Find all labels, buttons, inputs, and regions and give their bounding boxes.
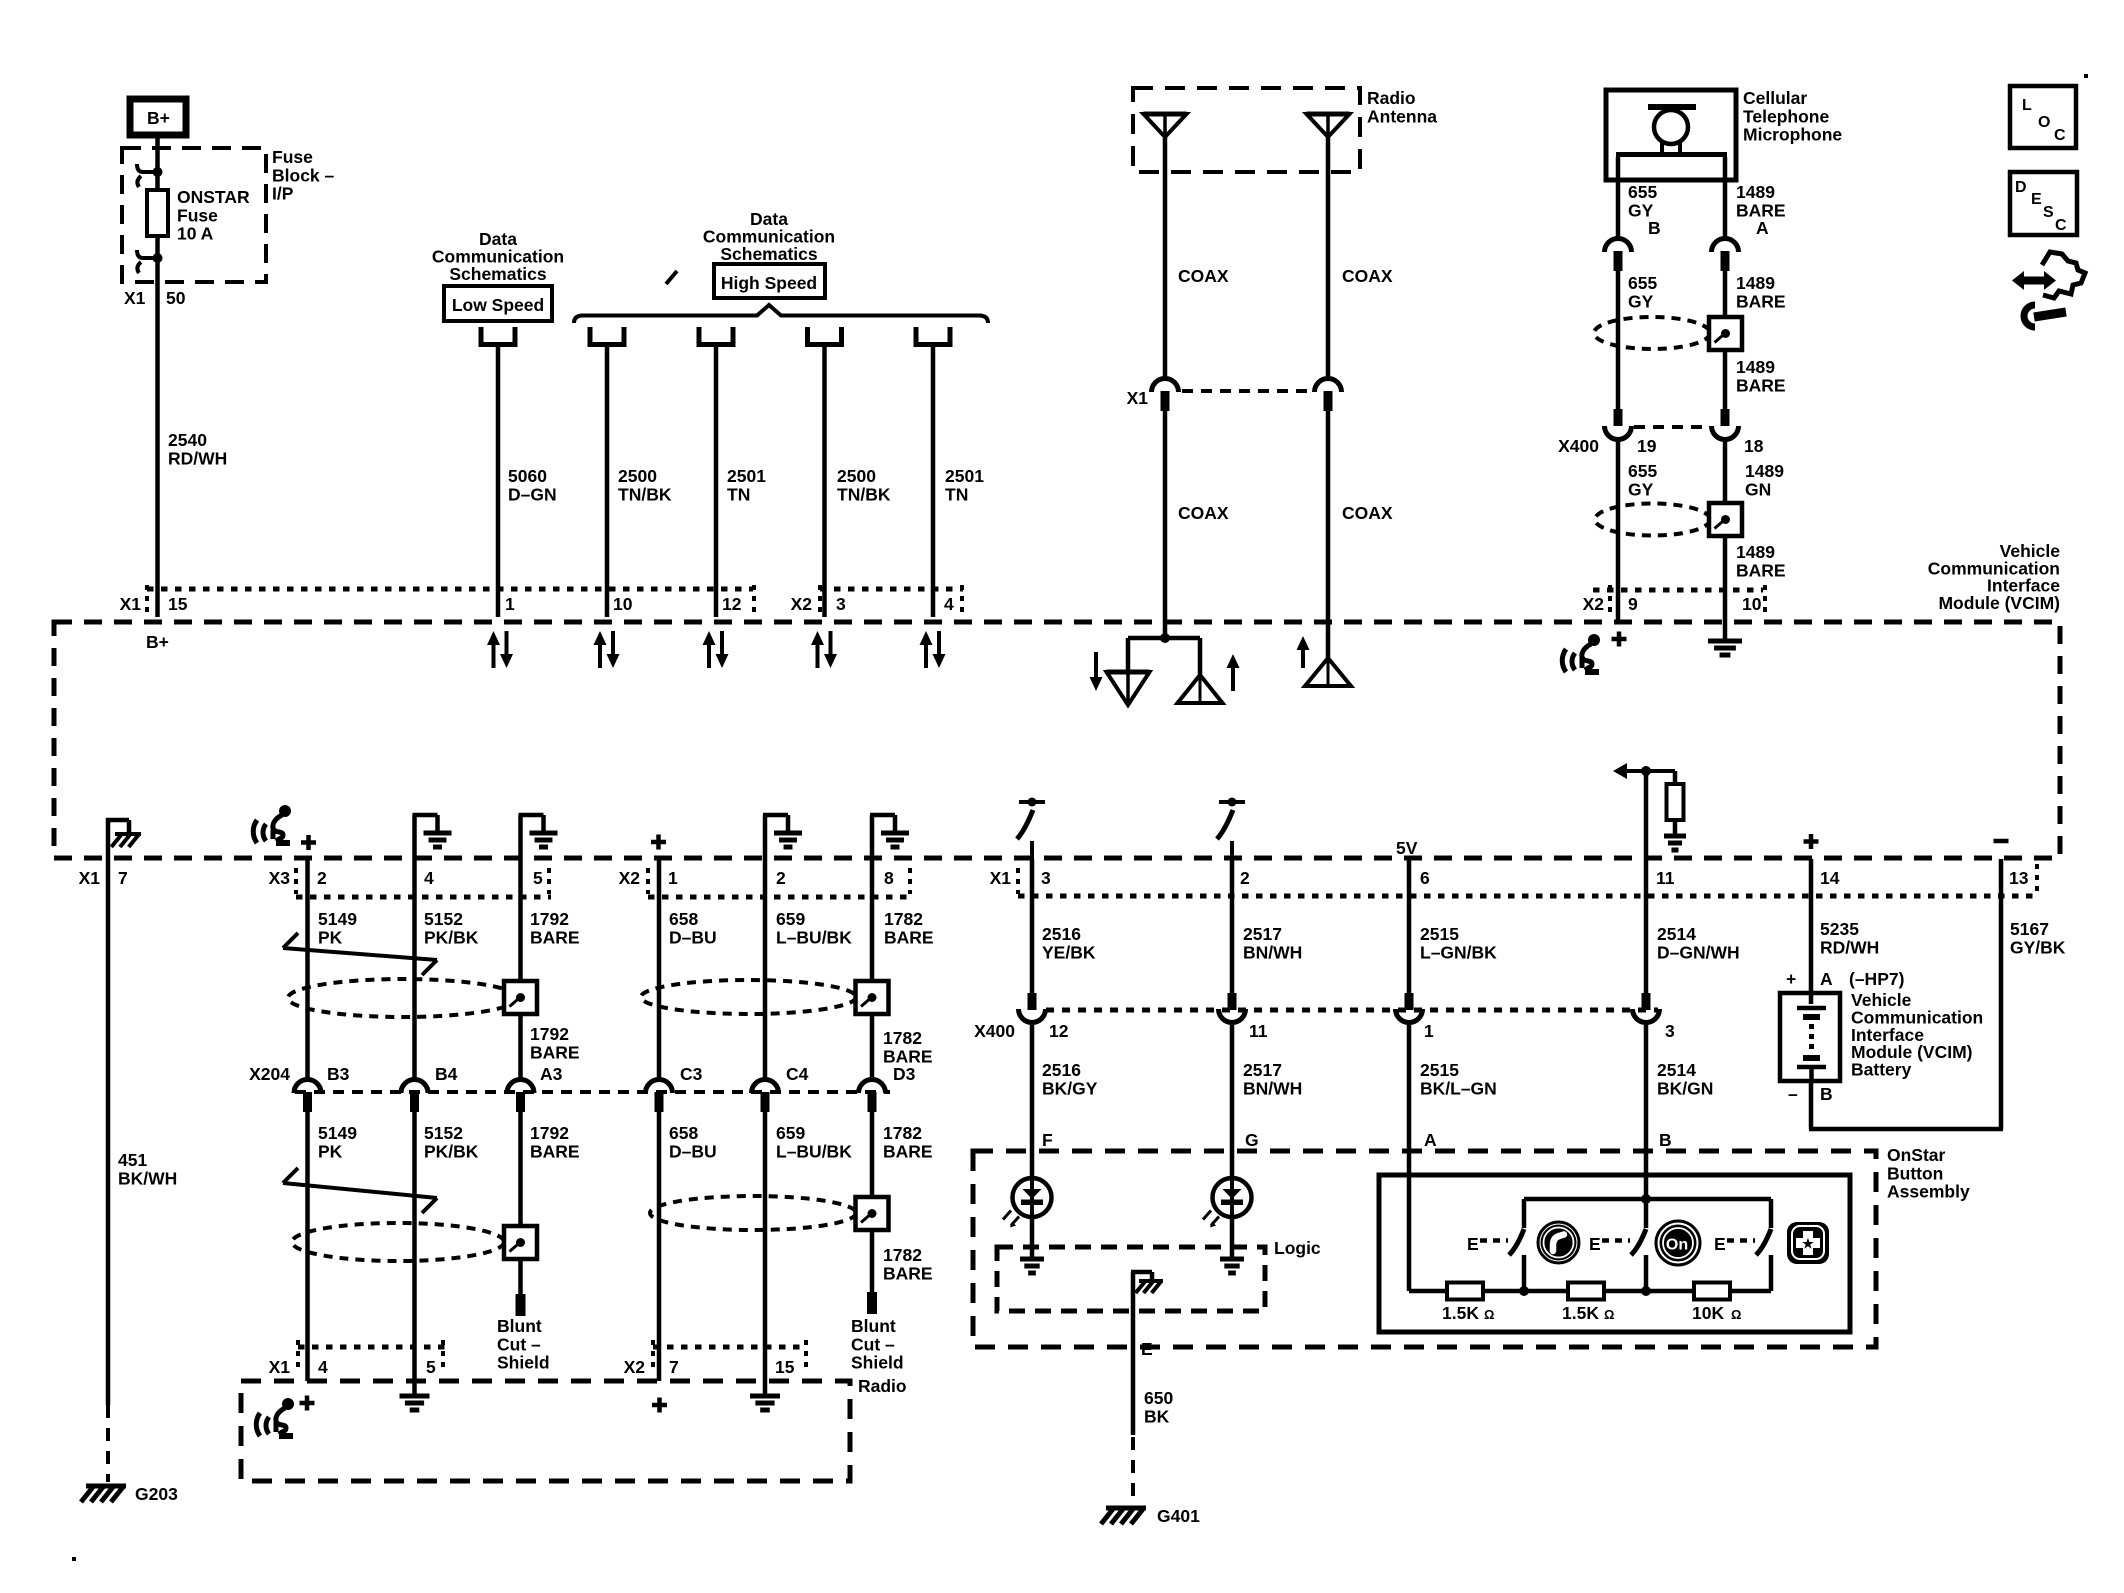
svg-text:L–BU/BK: L–BU/BK — [776, 927, 852, 947]
switch drop 1 upper — [1522, 1199, 1527, 1228]
check mark — [666, 271, 677, 284]
svg-text:1489: 1489 — [1745, 461, 1784, 481]
ground struct X3-4 — [412, 815, 417, 859]
wire B+ to fuse — [155, 137, 160, 190]
svg-text:18: 18 — [1744, 436, 1764, 456]
switch drop 3 upper — [1769, 1199, 1774, 1228]
shield ellipse mid upper — [641, 980, 856, 1014]
radio antenna dashed box — [1133, 88, 1360, 172]
svg-text:PK/BK: PK/BK — [424, 1141, 479, 1161]
pin row X2 dotted — [648, 895, 912, 900]
svg-text:1782: 1782 — [883, 1123, 922, 1143]
wire A upper — [1407, 1022, 1412, 1291]
svg-text:Shield: Shield — [497, 1353, 550, 1373]
svg-text:X3: X3 — [269, 868, 291, 888]
mic wire 655 mid — [1616, 269, 1621, 425]
svg-text:Logic: Logic — [1274, 1238, 1321, 1258]
antenna connector link dashes — [1182, 389, 1312, 393]
wire X2-1 upper — [657, 859, 662, 1079]
svg-text:D: D — [2015, 179, 2027, 196]
svg-text:Shield: Shield — [851, 1353, 904, 1373]
connector X204 B3 — [294, 1080, 321, 1094]
microphone symbol — [1648, 104, 1696, 110]
svg-text:Radio: Radio — [858, 1376, 907, 1396]
bidirectional arrows pin 3 — [707, 643, 711, 668]
wire X3-4 upper — [412, 859, 417, 1079]
pin tick radio X2 — [651, 1340, 655, 1372]
ground struct X3-5 — [518, 815, 523, 859]
connector X400 mic left — [1614, 409, 1623, 426]
antenna junction node — [1160, 633, 1170, 643]
shield ellipse left lower — [292, 1223, 504, 1261]
svg-text:+: + — [1786, 969, 1796, 989]
resistor R1 1.5K — [1447, 1283, 1483, 1300]
svg-text:1489: 1489 — [1736, 357, 1775, 377]
connector X204 dashed line — [295, 1090, 890, 1094]
svg-text:(–HP7): (–HP7) — [1849, 969, 1904, 989]
antenna branch left — [1126, 638, 1131, 674]
svg-text:5: 5 — [426, 1357, 436, 1377]
svg-text:RD/WH: RD/WH — [1820, 937, 1879, 957]
chassis ground E struct — [1131, 1270, 1152, 1275]
connector X400 mic right — [1721, 409, 1730, 426]
svg-text:Schematics: Schematics — [720, 244, 818, 264]
mute icon X3-2 — [253, 820, 257, 843]
switch drop 2 lower — [1644, 1255, 1649, 1291]
svg-text:Cut –: Cut – — [497, 1334, 541, 1354]
chassis ground X1-7 struct — [106, 818, 111, 861]
resistor ground stub — [1673, 820, 1678, 836]
svg-text:B4: B4 — [435, 1064, 458, 1084]
svg-text:9: 9 — [1628, 594, 1638, 614]
switch drop 2 upper — [1644, 1199, 1649, 1228]
svg-text:BARE: BARE — [1736, 291, 1786, 311]
svg-text:Radio: Radio — [1367, 88, 1416, 108]
radio dashed box — [241, 1381, 850, 1481]
wire high speed 3 — [822, 347, 827, 617]
plus node X3-2 — [301, 840, 316, 845]
svg-text:BK/GN: BK/GN — [1657, 1078, 1713, 1098]
pin tick radio 5 — [441, 1340, 445, 1372]
mic shield ellipse 1 — [1594, 317, 1710, 349]
mic X400 link dashes — [1634, 425, 1710, 429]
svg-text:5: 5 — [533, 868, 543, 888]
svg-text:14: 14 — [1820, 868, 1840, 888]
svg-text:TN/BK: TN/BK — [618, 484, 672, 504]
node B junction — [1641, 1194, 1651, 1204]
mic wire 655 upper — [1616, 157, 1621, 238]
svg-text:B: B — [1820, 1084, 1833, 1104]
mic wire 1489 mid — [1723, 269, 1728, 317]
svg-text:Block –: Block – — [272, 165, 335, 185]
svg-text:G: G — [1245, 1130, 1259, 1150]
svg-text:Fuse: Fuse — [177, 205, 218, 225]
svg-text:L–BU/BK: L–BU/BK — [776, 1141, 852, 1161]
mic ground wire — [1723, 622, 1728, 641]
svg-text:O: O — [2038, 114, 2050, 131]
plus node X1-14 — [1804, 839, 1819, 844]
svg-text:2514: 2514 — [1657, 924, 1696, 944]
connector X204 C3 — [646, 1080, 673, 1094]
svg-text:11: 11 — [1249, 1021, 1268, 1041]
pin tick X2-9 — [1608, 585, 1612, 614]
minus node X1-13 — [1994, 839, 2009, 844]
connector X204 A3 — [507, 1080, 534, 1094]
svg-text:2516: 2516 — [1042, 1060, 1081, 1080]
svg-text:F: F — [1042, 1130, 1053, 1150]
svg-text:2501: 2501 — [727, 466, 766, 486]
LED F — [1030, 1178, 1034, 1217]
svg-text:Ω: Ω — [1731, 1307, 1741, 1322]
high speed box — [714, 264, 825, 298]
svg-text:5152: 5152 — [424, 1123, 463, 1143]
svg-text:D–BU: D–BU — [669, 1141, 717, 1161]
cellular microphone box — [1606, 90, 1736, 180]
low speed box — [444, 286, 552, 321]
svg-text:BARE: BARE — [883, 1263, 933, 1283]
svg-text:11: 11 — [1656, 868, 1675, 888]
shield box A3 upper — [504, 981, 537, 1014]
svg-text:X1: X1 — [124, 288, 146, 308]
svg-text:X1: X1 — [269, 1357, 291, 1377]
plus node X2-1 — [651, 840, 666, 845]
svg-text:15: 15 — [168, 594, 188, 614]
svg-text:4: 4 — [318, 1357, 328, 1377]
svg-text:E: E — [2031, 191, 2042, 208]
svg-text:655: 655 — [1628, 273, 1657, 293]
svg-text:TN/BK: TN/BK — [837, 484, 891, 504]
svg-text:B3: B3 — [327, 1064, 350, 1084]
connector X400-3 cup — [1633, 1009, 1660, 1022]
svg-text:D–BU: D–BU — [669, 927, 717, 947]
wire battery minus — [1809, 1081, 1814, 1129]
pin tick X1-15 — [145, 585, 149, 614]
wire E — [1131, 1272, 1136, 1435]
mic shield box 1 — [1709, 317, 1742, 350]
wire B4 lower — [412, 1110, 417, 1396]
svg-text:X1: X1 — [990, 868, 1012, 888]
wire X2-8 mid — [870, 1014, 875, 1079]
resistor R3 10K — [1694, 1283, 1730, 1300]
plus node radio 7 — [652, 1403, 667, 1408]
svg-text:PK/BK: PK/BK — [424, 927, 479, 947]
svg-text:5149: 5149 — [318, 1123, 357, 1143]
service icon arrow — [2012, 271, 2024, 290]
VCIM module dashed box — [54, 622, 2060, 858]
ground G401 — [1106, 1506, 1146, 1511]
svg-text:E: E — [1467, 1234, 1479, 1254]
svg-text:GY/BK: GY/BK — [2010, 937, 2066, 957]
svg-text:659: 659 — [776, 1123, 805, 1143]
twisted pair symbol lower — [283, 1183, 437, 1198]
bidirectional arrows pin 2 — [598, 643, 602, 668]
service icon wrench — [2024, 305, 2035, 327]
svg-text:ONSTAR: ONSTAR — [177, 187, 250, 207]
blunt cut shield A3 — [516, 1294, 526, 1316]
shield box A3 lower — [504, 1226, 537, 1259]
plus node radio left — [300, 1401, 315, 1406]
ground struct X2-2 — [763, 815, 768, 859]
high speed drop bracket 2 — [697, 327, 702, 347]
svg-text:C: C — [2055, 217, 2067, 234]
pin row radio X1 dotted — [298, 1345, 445, 1350]
svg-text:BARE: BARE — [530, 1042, 580, 1062]
svg-text:3: 3 — [1041, 868, 1051, 888]
shield box D3 upper — [856, 981, 889, 1014]
switch symbol X1-2 — [1219, 800, 1245, 804]
earth ground radio 5 — [400, 1394, 430, 1399]
wire B upper — [1644, 1022, 1649, 1199]
resistor R2 1.5K — [1568, 1283, 1604, 1300]
arrow node X1-11 — [1613, 763, 1627, 779]
wire G to ground — [1230, 1217, 1235, 1259]
connector X204 B4 — [401, 1080, 428, 1094]
button top rail — [1524, 1197, 1771, 1202]
svg-text:655: 655 — [1628, 461, 1657, 481]
wire B3 lower — [305, 1110, 310, 1381]
svg-text:X204: X204 — [249, 1064, 290, 1084]
pin tick X2 right — [818, 585, 822, 614]
svg-text:On: On — [1666, 1237, 1688, 1254]
svg-text:G401: G401 — [1157, 1506, 1200, 1526]
svg-text:RD/WH: RD/WH — [168, 448, 227, 468]
svg-text:C3: C3 — [680, 1064, 703, 1084]
ground struct X2-8 — [870, 815, 875, 859]
svg-text:2516: 2516 — [1042, 924, 1081, 944]
wire battery to pin13 horizontal — [1809, 1127, 2003, 1132]
svg-text:Antenna: Antenna — [1367, 106, 1437, 126]
svg-text:2501: 2501 — [945, 466, 984, 486]
svg-text:1489: 1489 — [1736, 182, 1775, 202]
pin row 3-4 dotted — [820, 587, 963, 592]
arrow down (rx) — [1094, 652, 1098, 679]
svg-text:2500: 2500 — [837, 466, 876, 486]
svg-text:B: B — [1648, 218, 1661, 238]
pin tick radio X1 — [296, 1340, 300, 1372]
svg-text:1489: 1489 — [1736, 542, 1775, 562]
resistor body X1-11 — [1667, 784, 1684, 820]
battery cell symbol — [1797, 1006, 1826, 1011]
svg-text:GN: GN — [1745, 479, 1771, 499]
wire 451 BK/WH — [106, 861, 111, 1405]
connector X400-12 cup — [1019, 1009, 1046, 1022]
bidirectional arrows pin 4 — [816, 643, 820, 668]
svg-text:1792: 1792 — [530, 1024, 569, 1044]
svg-text:E: E — [1141, 1339, 1153, 1359]
rail junction 2 — [1641, 1286, 1651, 1296]
svg-text:X400: X400 — [974, 1021, 1015, 1041]
antenna termination down — [1107, 670, 1150, 675]
mic shield ellipse 2 — [1595, 504, 1710, 536]
connector X400-11 cup — [1219, 1009, 1246, 1022]
svg-text:1.5K: 1.5K — [1562, 1303, 1599, 1323]
wire C3 lower — [657, 1110, 662, 1381]
svg-text:G203: G203 — [135, 1484, 178, 1504]
svg-text:2: 2 — [317, 868, 327, 888]
connector X204 D3 — [859, 1080, 886, 1093]
pin tick X2 left — [752, 585, 756, 614]
svg-text:Ω: Ω — [1484, 1307, 1494, 1322]
pin row X1-15 to 12 dotted — [147, 587, 753, 592]
speck dot — [2084, 74, 2088, 78]
shield box D3 lower — [856, 1197, 889, 1230]
svg-text:Button: Button — [1887, 1163, 1943, 1183]
mic wire 1489 mid2 — [1723, 350, 1728, 425]
svg-text:I/P: I/P — [272, 184, 294, 204]
svg-text:10: 10 — [1742, 594, 1762, 614]
bidirectional arrows pin 5 — [924, 643, 928, 668]
svg-text:C4: C4 — [786, 1064, 809, 1084]
svg-text:8: 8 — [884, 868, 894, 888]
switch drop 1 lower — [1522, 1255, 1527, 1291]
svg-text:Cut –: Cut – — [851, 1334, 895, 1354]
wire D3 to blunt cut — [870, 1230, 875, 1292]
LED G — [1230, 1178, 1234, 1217]
svg-text:1782: 1782 — [883, 1028, 922, 1048]
svg-text:L–GN/BK: L–GN/BK — [1420, 942, 1497, 962]
antenna inline connector right — [1315, 379, 1342, 393]
svg-text:2517: 2517 — [1243, 924, 1282, 944]
earth ground X1-11 — [1664, 834, 1686, 839]
antenna termination up right — [1305, 658, 1351, 686]
LOC box — [2010, 86, 2076, 148]
mic shield box 2 — [1709, 503, 1742, 536]
svg-text:BARE: BARE — [530, 1141, 580, 1161]
logic dashed box — [997, 1247, 1265, 1311]
svg-text:Fuse: Fuse — [272, 147, 313, 167]
wire 5060 low speed — [496, 347, 501, 617]
svg-text:D–GN/WH: D–GN/WH — [1657, 942, 1740, 962]
wire X2-8 upper — [870, 859, 875, 981]
svg-text:13: 13 — [2009, 868, 2029, 888]
svg-text:TN: TN — [945, 484, 968, 504]
svg-text:A: A — [1820, 969, 1833, 989]
wire X1-11 upper — [1644, 771, 1649, 859]
svg-text:1792: 1792 — [530, 1123, 569, 1143]
pin tick X2a — [646, 868, 650, 894]
svg-text:451: 451 — [118, 1150, 147, 1170]
svg-text:GY: GY — [1628, 291, 1654, 311]
resistor to ground X1-11 — [1673, 771, 1678, 784]
svg-text:Module (VCIM): Module (VCIM) — [1938, 593, 2060, 613]
wire X3-5 upper — [518, 859, 523, 981]
svg-text:2540: 2540 — [168, 430, 207, 450]
svg-text:A: A — [1424, 1130, 1437, 1150]
svg-text:X1: X1 — [1127, 388, 1149, 408]
svg-text:BK/GY: BK/GY — [1042, 1078, 1098, 1098]
low speed drop bracket — [479, 327, 484, 347]
svg-text:YE/BK: YE/BK — [1042, 942, 1096, 962]
wire X1-2 lower — [1230, 859, 1235, 993]
button bottom rail — [1409, 1289, 1771, 1294]
svg-text:5149: 5149 — [318, 909, 357, 929]
fuse F1 clip top — [137, 164, 158, 172]
svg-text:B: B — [1659, 1130, 1672, 1150]
coax wire left lower — [1163, 411, 1168, 638]
svg-text:Low Speed: Low Speed — [452, 295, 544, 315]
svg-text:GY: GY — [1628, 479, 1654, 499]
mic inline connector A — [1712, 238, 1739, 252]
wire G upper — [1230, 1022, 1235, 1178]
svg-text:X400: X400 — [1558, 436, 1599, 456]
earth ground X2-10 — [1708, 639, 1742, 644]
power feed B+ box — [130, 99, 186, 135]
svg-text:D3: D3 — [893, 1064, 916, 1084]
shield ellipse mid lower — [650, 1196, 856, 1230]
wire F upper — [1030, 1022, 1035, 1178]
svg-text:B+: B+ — [147, 108, 170, 128]
svg-text:5060: 5060 — [508, 466, 547, 486]
fuse block I/P dashed box — [122, 148, 266, 282]
earth ground F — [1020, 1257, 1044, 1262]
svg-text:3: 3 — [1665, 1021, 1675, 1041]
svg-text:B+: B+ — [146, 632, 169, 652]
bidirectional arrows pin 1 — [492, 643, 496, 668]
pin row X1 right dotted — [1018, 894, 2040, 899]
antenna branch right — [1198, 638, 1203, 676]
svg-text:658: 658 — [669, 909, 698, 929]
svg-text:★: ★ — [1802, 1236, 1814, 1251]
pin tick X2b — [908, 868, 912, 894]
antenna termination up — [1178, 675, 1223, 703]
wire X2-2 upper — [763, 859, 768, 1079]
svg-text:Assembly: Assembly — [1887, 1182, 1970, 1202]
OnStar button assembly dashed box — [973, 1151, 1876, 1347]
svg-text:10: 10 — [613, 594, 633, 614]
svg-text:BN/WH: BN/WH — [1243, 942, 1302, 962]
high speed drop bracket 3 — [805, 327, 810, 347]
svg-text:BN/WH: BN/WH — [1243, 1078, 1302, 1098]
connector X204 C4 — [752, 1080, 779, 1094]
svg-text:OnStar: OnStar — [1887, 1145, 1946, 1165]
svg-text:10K: 10K — [1692, 1303, 1724, 1323]
ground G203 — [86, 1484, 126, 1489]
svg-text:BARE: BARE — [883, 1141, 933, 1161]
phone button — [1538, 1222, 1579, 1263]
svg-text:Microphone: Microphone — [1743, 125, 1842, 145]
arrow up (tx) — [1231, 666, 1235, 691]
svg-text:2: 2 — [1240, 868, 1250, 888]
svg-text:BARE: BARE — [883, 1046, 933, 1066]
mic wire 655 lower — [1616, 439, 1621, 622]
switch symbol X1-3 — [1019, 800, 1045, 804]
earth ground G — [1220, 1257, 1244, 1262]
on button — [1656, 1221, 1700, 1265]
svg-text:Blunt: Blunt — [851, 1316, 896, 1336]
svg-text:A: A — [1756, 218, 1769, 238]
wire X1-14 to battery — [1809, 859, 1814, 1004]
svg-text:659: 659 — [776, 909, 805, 929]
mute icon X2-9 — [1562, 649, 1566, 672]
svg-text:PK: PK — [318, 1141, 343, 1161]
svg-text:Cellular: Cellular — [1743, 88, 1807, 108]
pin row radio X2 dotted — [653, 1345, 806, 1350]
wire A3 lower — [518, 1110, 523, 1226]
svg-text:C: C — [2054, 127, 2066, 144]
svg-text:D–GN: D–GN — [508, 484, 557, 504]
wire fuse to X1-50 — [155, 236, 160, 617]
svg-text:BK: BK — [1144, 1406, 1170, 1426]
svg-text:1489: 1489 — [1736, 273, 1775, 293]
svg-text:1792: 1792 — [530, 909, 569, 929]
svg-text:X2: X2 — [1583, 594, 1605, 614]
svg-text:5235: 5235 — [1820, 919, 1859, 939]
speck dot bottom — [72, 1557, 76, 1561]
plus node X2-9 — [1612, 637, 1627, 642]
svg-text:PK: PK — [318, 927, 343, 947]
blunt cut shield D3 — [867, 1292, 877, 1314]
wire C4 lower — [763, 1110, 768, 1396]
